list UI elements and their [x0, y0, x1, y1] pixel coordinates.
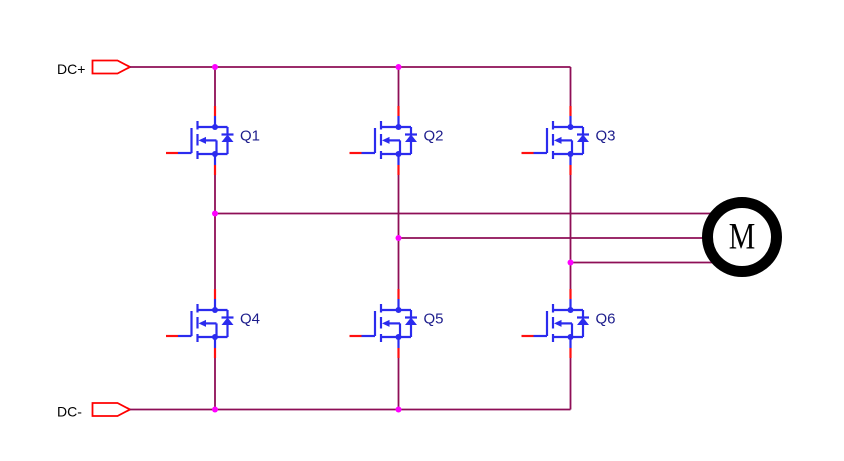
svg-text:Q2: Q2	[424, 128, 444, 145]
svg-text:Q4: Q4	[240, 311, 260, 328]
wire col2 mid	[398, 175, 400, 289]
svg-text:Q6: Q6	[596, 311, 616, 328]
wire phase C to motor	[571, 262, 717, 264]
transistor Q5	[350, 289, 418, 358]
junction top rail col1	[212, 64, 218, 70]
wire phase B to motor	[399, 237, 704, 239]
terminal DC+	[93, 61, 131, 74]
wire col1 bottom	[214, 358, 216, 410]
transistor Q1	[166, 106, 234, 175]
wire col3 bottom	[570, 358, 572, 410]
terminal DC-	[93, 403, 131, 416]
svg-text:Q5: Q5	[424, 311, 444, 328]
svg-text:M: M	[729, 215, 756, 256]
wire col3 top	[570, 67, 572, 106]
junction bottom rail col2	[396, 407, 402, 413]
wire bottom rail DC-	[130, 409, 571, 411]
svg-text:DC-: DC-	[57, 404, 82, 420]
wire col1 top	[214, 67, 216, 106]
junction bottom rail col1	[212, 407, 218, 413]
motor M1 body	[708, 203, 777, 272]
wire col2 top	[398, 67, 400, 106]
junction phase A node	[212, 211, 218, 217]
junction phase C node	[568, 260, 574, 266]
junction phase B node	[396, 235, 402, 241]
wire top rail DC+	[130, 66, 571, 68]
transistor Q2	[350, 106, 418, 175]
transistor Q3	[522, 106, 590, 175]
wire col3 mid	[570, 175, 572, 289]
wire col1 mid	[214, 175, 216, 289]
wire phase A to motor	[215, 213, 716, 215]
transistor Q4	[166, 289, 234, 358]
svg-text:Q3: Q3	[596, 128, 616, 145]
junction top rail col2	[396, 64, 402, 70]
svg-text:DC+: DC+	[57, 61, 85, 77]
wire col2 bottom	[398, 358, 400, 410]
svg-text:Q1: Q1	[240, 128, 260, 145]
transistor Q6	[522, 289, 590, 358]
